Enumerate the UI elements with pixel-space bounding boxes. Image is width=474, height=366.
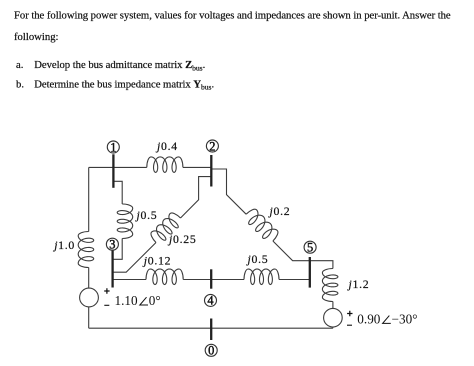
svg-text:3: 3 xyxy=(109,238,115,252)
svg-text:4: 4 xyxy=(207,294,213,308)
svg-text:0°: 0° xyxy=(149,293,161,308)
svg-text:following:: following: xyxy=(14,31,59,43)
svg-text:j0.4: j0.4 xyxy=(155,139,178,153)
svg-text:a.: a. xyxy=(16,59,23,71)
svg-text:j0.25: j0.25 xyxy=(167,232,196,246)
svg-text:1.10: 1.10 xyxy=(115,293,138,308)
svg-text:Develop the bus admittance mat: Develop the bus admittance matrix Zbus. xyxy=(34,59,205,72)
svg-text:5: 5 xyxy=(307,241,313,255)
svg-text:j0.12: j0.12 xyxy=(142,253,171,267)
svg-text:j1.2: j1.2 xyxy=(347,277,370,291)
svg-text:For the following power system: For the following power system, values f… xyxy=(14,10,451,22)
svg-text:0: 0 xyxy=(208,344,214,358)
svg-text:j0.2: j0.2 xyxy=(268,204,291,218)
svg-text:−30°: −30° xyxy=(392,311,418,326)
svg-text:j1.0: j1.0 xyxy=(52,238,75,252)
svg-text:Determine the bus impedance ma: Determine the bus impedance matrix Ybus. xyxy=(34,78,214,91)
svg-text:0.90: 0.90 xyxy=(357,311,380,326)
svg-text:b.: b. xyxy=(16,78,24,90)
svg-text:2: 2 xyxy=(209,139,215,153)
svg-text:j0.5: j0.5 xyxy=(246,252,269,266)
svg-text:j0.5: j0.5 xyxy=(135,208,158,222)
svg-text:1: 1 xyxy=(110,140,116,154)
